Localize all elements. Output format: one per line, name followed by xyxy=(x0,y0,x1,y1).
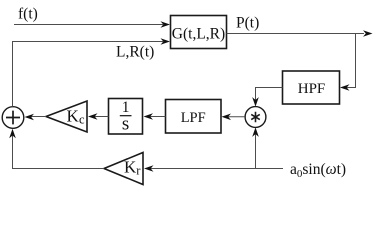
svg-text:K: K xyxy=(67,106,80,125)
svg-text:f(t): f(t) xyxy=(18,6,38,23)
summing junction S1 xyxy=(2,107,24,129)
arrowhead into integrator right xyxy=(144,113,154,120)
wire integrator to Kc xyxy=(94,116,109,118)
arrowhead into G pin f(t) xyxy=(161,21,171,28)
arrowhead into G pin L,R xyxy=(161,38,171,45)
svg-text:P(t): P(t) xyxy=(236,15,259,32)
arrowhead into LPF right xyxy=(222,114,232,121)
gain Kr xyxy=(104,153,143,185)
multiplier M1 xyxy=(245,107,266,128)
wire Kc to sum xyxy=(31,116,46,118)
gain Kc xyxy=(46,101,87,132)
block LPF xyxy=(166,100,222,134)
svg-text:LPF: LPF xyxy=(181,110,206,126)
wire feedback from P(t) node down to HPF xyxy=(346,34,356,88)
arrowhead into sum bottom xyxy=(9,129,16,139)
wire a0sin to Kr xyxy=(150,168,283,170)
wire HPF output left and down to multiplier xyxy=(256,88,283,101)
svg-text:G(t,L,R): G(t,L,R) xyxy=(172,26,225,43)
svg-text:L,R(t): L,R(t) xyxy=(116,44,154,61)
wire sum output up and right to G (L,R input) xyxy=(13,42,164,107)
svg-text:K: K xyxy=(124,157,137,176)
arrowhead into Kc base xyxy=(88,113,98,120)
arrowhead into Kr base xyxy=(144,165,154,172)
wire LPF to integrator xyxy=(150,116,166,118)
arrowhead P(t) right edge xyxy=(363,30,373,37)
arrowhead into HPF right xyxy=(340,84,350,91)
svg-text:c: c xyxy=(79,113,85,127)
wire multiplier to LPF xyxy=(228,116,245,118)
block G(t,L,R) xyxy=(171,16,227,49)
wire f(t) input to G xyxy=(14,24,163,26)
block integrator 1/s xyxy=(109,99,143,135)
svg-text:a0sin(ωt): a0sin(ωt) xyxy=(290,161,346,180)
arrowhead into sum right xyxy=(25,114,35,121)
wire Kr output to sum bottom xyxy=(13,135,105,169)
svg-text:HPF: HPF xyxy=(298,81,326,97)
svg-text:s: s xyxy=(122,113,129,134)
arrowhead into multiplier bottom xyxy=(252,127,259,136)
block HPF xyxy=(283,71,340,104)
arrowhead into multiplier top xyxy=(252,97,259,107)
wire carrier branch up to multiplier xyxy=(255,134,257,169)
wire P(t) output xyxy=(227,33,365,35)
